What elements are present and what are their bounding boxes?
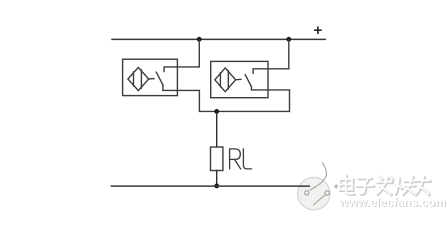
node junction dot at load bus [214,109,219,114]
proximity switch SQ1 enclosure box [123,59,178,95]
+ terminal label [315,27,321,33]
wire: SQ2 top terminal to top rail [253,39,289,73]
wire: SQ2 bottom terminal to load node bus [217,87,290,112]
SQ2 actuator link line [236,78,241,80]
SQ2 proximity sensor diamond [215,68,236,92]
wire: resistor RL to bottom rail [216,171,218,187]
SQ1 NO contact blade [156,72,163,85]
watermark logo circle [298,162,330,210]
watermark logo left ring [305,191,309,195]
SQ2 NO contact blade [245,75,251,87]
watermark bullet diamond [334,184,339,189]
SQ1 diamond inner chord lines [133,72,135,86]
char fa [377,176,394,195]
svg-text:www.elecfans.com: www.elecfans.com [338,195,446,209]
wire: SQ1 top terminal to top rail [164,39,199,71]
node junction dot on top rail (right) [286,37,291,42]
wire: bottom return rail [111,185,309,187]
SQ1 proximity sensor diamond [128,67,149,90]
char you [416,176,431,195]
watermark logo right ring [325,191,329,195]
value label RL letter L [243,149,251,169]
wire: top supply rail [112,38,325,40]
wire: SQ1 bottom terminal to load node bus [163,85,217,112]
node junction dot on top rail (left) [197,37,202,42]
char zi [357,178,375,195]
SQ2 diamond inner chord lines [219,73,221,87]
wire: load node down to resistor RL [216,111,218,147]
watermark logo tail stroke [313,195,325,206]
watermark url text [338,195,447,210]
watermark logo swoosh stem [310,162,327,190]
watermark brand characters (stylized) [340,175,431,195]
node junction dot on bottom rail [214,184,219,189]
proximity switch SQ2 enclosure box [211,61,268,97]
SQ1 actuator link line [149,78,154,80]
value label RL letter R [230,149,241,169]
char dian [340,175,355,195]
resistor RL body [211,147,223,171]
char shao [395,177,416,195]
